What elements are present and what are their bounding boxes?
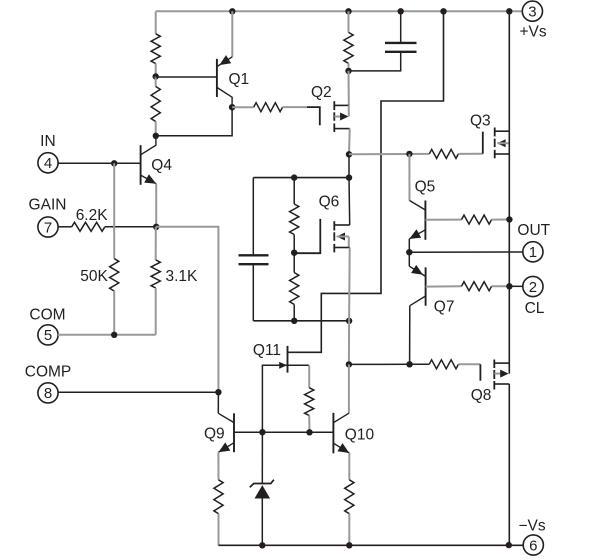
transistor Q6 drain stub bbox=[334, 224, 349, 226]
transistor Q6 body arrow bbox=[337, 233, 345, 241]
svg-text:Q9: Q9 bbox=[204, 426, 225, 443]
resistor 6.2K bbox=[72, 222, 105, 231]
transistor Q4 emitter diagonal bbox=[141, 175, 157, 184]
node COMP junction bbox=[215, 389, 221, 395]
wire Q11 emitter line bbox=[262, 365, 287, 432]
svg-text:5: 5 bbox=[44, 327, 52, 344]
wire bbox=[458, 153, 482, 155]
node zener junction bbox=[259, 429, 265, 435]
transistor Q4 collector bbox=[141, 136, 156, 155]
resistor R-top-left lower bbox=[151, 87, 160, 122]
resistor Q1-Q2 gate bbox=[254, 103, 283, 112]
node compensation block top junction bbox=[346, 174, 352, 180]
transistor Q1 base bar bbox=[216, 59, 218, 97]
wire bbox=[308, 365, 310, 387]
wire bbox=[293, 178, 295, 204]
svg-text:4: 4 bbox=[44, 155, 52, 172]
svg-text:8: 8 bbox=[44, 385, 52, 402]
svg-text:+Vs: +Vs bbox=[520, 24, 547, 41]
transistor Q9 emitter arrow (NPN) bbox=[218, 442, 230, 452]
node bbox=[346, 542, 352, 548]
transistor Q5 emitter arrow (NPN) bbox=[409, 229, 421, 239]
node bbox=[291, 318, 297, 324]
transistor Q10 emitter diagonal bbox=[333, 443, 349, 453]
pin 3 +Vs bbox=[522, 1, 542, 21]
resistor Q3 gate bbox=[429, 149, 458, 158]
node Q4 collector junction bbox=[153, 133, 159, 139]
node OUT resistor junction bbox=[506, 216, 512, 222]
transistor Q2 body line bbox=[334, 116, 341, 118]
wire bbox=[349, 363, 410, 365]
pin 5 COM bbox=[38, 325, 58, 345]
node Q9Q10 base junction bbox=[306, 429, 312, 435]
wire bias run rail to Q11 bbox=[288, 11, 444, 352]
resistor 50K bbox=[110, 259, 119, 291]
svg-text:Q7: Q7 bbox=[434, 299, 455, 316]
resistor Q11 emitter bbox=[305, 388, 314, 416]
svg-text:3: 3 bbox=[528, 4, 536, 21]
wire +Vs top rail bbox=[156, 10, 523, 12]
wire Q4 emitter down bbox=[155, 184, 157, 227]
pin 2 CL bbox=[523, 276, 543, 296]
transistor Q10 emitter arrow (NPN) bbox=[337, 443, 349, 453]
resistor Q10 emitter bbox=[345, 480, 354, 514]
node COM-50K junction bbox=[111, 332, 117, 338]
capacitor C-top bottom lead bbox=[349, 52, 401, 71]
transistor Q10 base bar bbox=[332, 413, 334, 454]
transistor Q7 emitter diagonal bbox=[409, 266, 425, 276]
wire bbox=[410, 363, 430, 365]
svg-text:Q2: Q2 bbox=[311, 84, 332, 101]
wire Q3 gate line bbox=[349, 153, 429, 155]
node rail-bias wire bbox=[440, 8, 446, 14]
transistor Q8 body arrow bbox=[500, 370, 508, 378]
transistor Q9 emitter diagonal bbox=[218, 443, 234, 453]
transistor Q3 source stub bbox=[495, 153, 510, 155]
wire CL to pin bbox=[509, 285, 523, 287]
wire bbox=[218, 514, 220, 546]
node CL junction bbox=[506, 283, 512, 289]
transistor Q2 gate bar bbox=[307, 107, 320, 125]
svg-text:Q6: Q6 bbox=[319, 193, 340, 210]
wire Q7 emitter from OUT node bbox=[408, 252, 410, 266]
wire bbox=[458, 363, 480, 365]
wire output rail upper bbox=[508, 11, 510, 373]
resistor +Vs bias bbox=[344, 32, 353, 63]
wire Q1 collector to Q4 collector bbox=[156, 107, 232, 136]
svg-text:Q11: Q11 bbox=[253, 342, 281, 359]
resistor Q7 base (CL) bbox=[462, 282, 492, 291]
wire Q1 emitter from rail bbox=[231, 11, 233, 57]
transistor Q5 base bar bbox=[424, 201, 426, 240]
svg-text:GAIN: GAIN bbox=[29, 197, 67, 214]
transistor Q8 drain stub bbox=[494, 383, 509, 385]
transistor Q8 body line bbox=[494, 373, 501, 375]
wire bbox=[293, 235, 295, 253]
transistor Q3 gate bar bbox=[482, 132, 484, 154]
transistor Q11 emitter arrow (PNP) bbox=[279, 362, 287, 369]
transistor Q1 emitter arrow (PNP) bbox=[219, 55, 231, 65]
wire Q11 base lead bbox=[288, 364, 310, 366]
pin 4 IN bbox=[38, 153, 58, 173]
transistor Q2 source stub bbox=[334, 104, 349, 106]
transistor Q4 base bar bbox=[140, 145, 142, 185]
wire zener bottom lead bbox=[261, 499, 263, 546]
wire bbox=[232, 106, 254, 108]
node rail-bias resistor bbox=[345, 8, 351, 14]
wire bbox=[293, 253, 295, 273]
transistor Q7 collector diagonal bbox=[410, 296, 426, 306]
transistor Q9 collector diagonal bbox=[218, 413, 234, 422]
svg-text:50K: 50K bbox=[80, 268, 108, 285]
svg-text:Q10: Q10 bbox=[345, 427, 375, 444]
node rail-compensation cap bbox=[398, 8, 404, 14]
svg-text:COMP: COMP bbox=[25, 364, 72, 381]
resistor 3.1K bbox=[151, 260, 160, 288]
resistor comp divider upper bbox=[290, 204, 299, 235]
node Q6 gate junction bbox=[291, 250, 297, 256]
wire Q9-Q10 base line bbox=[234, 431, 333, 433]
transistor Q3 channel dashes bbox=[494, 128, 496, 137]
wire Q5 emitter down bbox=[408, 239, 410, 252]
transistor Q2 drain stub bbox=[334, 128, 349, 130]
transistor Q4 emitter arrow (NPN) bbox=[144, 174, 156, 184]
svg-text:7: 7 bbox=[44, 219, 52, 236]
wire comp block top line bbox=[253, 177, 349, 179]
wire bbox=[348, 63, 350, 71]
wire Q7 base lead bbox=[426, 285, 462, 287]
transistor Q6 gate bar bbox=[294, 219, 320, 253]
wire 50K top lead bbox=[113, 163, 115, 258]
capacitor C-top plates bbox=[385, 42, 417, 44]
pin 7 GAIN bbox=[38, 217, 58, 237]
resistor R-top-left upper bbox=[151, 34, 160, 64]
transistor Q8 gate bar bbox=[479, 364, 481, 380]
svg-text:COM: COM bbox=[29, 307, 65, 324]
wire Q9 collector from COMP bbox=[217, 392, 219, 413]
wire comp block bottom line bbox=[253, 320, 349, 322]
wire Q9 emitter down bbox=[217, 452, 219, 480]
resistor Q9 emitter bbox=[214, 480, 223, 514]
capacitor C-top lead bbox=[400, 11, 402, 42]
node rail-Q1 emitter bbox=[229, 8, 235, 14]
pin 1 OUT bbox=[523, 242, 543, 262]
wire Q6 source down bbox=[348, 248, 351, 321]
wire Q5 base lead bbox=[425, 219, 461, 221]
capacitor C-comp plates bbox=[239, 254, 269, 256]
wire bbox=[155, 64, 157, 77]
wire gain node to comp column bbox=[156, 227, 218, 392]
transistor Q2 channel dashes bbox=[333, 101, 335, 110]
capacitor C-comp top lead bbox=[252, 178, 254, 256]
wire 3.1K top lead bbox=[155, 227, 157, 260]
transistor Q3 body line bbox=[497, 142, 509, 144]
node bbox=[346, 318, 352, 324]
wire IN line bbox=[58, 162, 141, 164]
wire output rail lower bbox=[508, 384, 510, 545]
node GAIN-Q4 emitter junction bbox=[153, 224, 159, 230]
svg-text:6: 6 bbox=[529, 537, 537, 554]
wire bbox=[348, 514, 350, 546]
svg-text:6.2K: 6.2K bbox=[76, 207, 109, 224]
pin 8 COMP bbox=[38, 383, 58, 403]
wire bbox=[155, 77, 157, 87]
zener anode triangle bbox=[255, 485, 271, 498]
node Q1 collector junction bbox=[229, 104, 235, 110]
wire bbox=[492, 219, 510, 221]
node OUT junction bbox=[406, 249, 412, 255]
resistor Q8 gate bbox=[429, 360, 458, 369]
wire left column top bbox=[155, 11, 157, 34]
svg-text:CL: CL bbox=[525, 300, 545, 317]
wire bbox=[348, 154, 350, 177]
node bbox=[506, 542, 512, 548]
transistor Q10 collector diagonal bbox=[333, 413, 349, 423]
wire bbox=[348, 11, 350, 32]
svg-text:IN: IN bbox=[40, 133, 56, 150]
wire bbox=[105, 226, 156, 228]
wire OUT line bbox=[409, 251, 523, 253]
svg-text:−Vs: −Vs bbox=[519, 518, 546, 535]
wire Q2 drain down bbox=[348, 129, 351, 155]
node Q5 collector junction bbox=[406, 151, 412, 157]
transistor Q6 source stub bbox=[334, 247, 349, 249]
node bbox=[291, 174, 297, 180]
wire COM line bbox=[58, 334, 156, 336]
svg-text:1: 1 bbox=[529, 244, 537, 261]
wire bbox=[155, 122, 157, 136]
transistor Q3 drain stub bbox=[495, 130, 510, 132]
wire bbox=[308, 416, 310, 433]
transistor Q11 base bar bbox=[287, 346, 289, 373]
capacitor C-comp bottom lead bbox=[252, 264, 254, 321]
wire Q5 collector bbox=[408, 154, 410, 201]
transistor Q9 base bar bbox=[233, 413, 235, 452]
node Q8 gate line junction bbox=[346, 361, 352, 367]
wire Q10 collector up bbox=[348, 364, 350, 413]
wire Q2 gate lead bbox=[283, 106, 308, 108]
wire Q2 source from node bbox=[348, 71, 350, 106]
wire bbox=[293, 304, 295, 320]
transistor Q6 channel dashes bbox=[333, 221, 335, 230]
node rail-Q3 drain bbox=[506, 8, 512, 14]
transistor Q2 body arrow bbox=[340, 113, 348, 121]
node Q1 base junction bbox=[153, 73, 159, 79]
transistor Q8 channel dashes bbox=[493, 360, 495, 369]
transistor Q8 source stub bbox=[494, 362, 509, 364]
wire COMP line bbox=[58, 391, 219, 393]
wire Q10 emitter down bbox=[348, 453, 350, 480]
node bbox=[259, 542, 265, 548]
zener cathode bar bbox=[250, 480, 274, 488]
transistor Q1 emitter diagonal bbox=[217, 57, 232, 67]
resistor Q5 base bbox=[462, 215, 492, 224]
node bias res/cap junction bbox=[345, 68, 351, 74]
node Q7 collector junction bbox=[406, 361, 412, 367]
svg-text:Q1: Q1 bbox=[229, 71, 250, 88]
svg-text:3.1K: 3.1K bbox=[166, 268, 199, 285]
wire bbox=[58, 226, 72, 228]
wire -Vs bottom rail bbox=[219, 544, 524, 546]
wire bbox=[348, 321, 350, 365]
wire 50K bottom lead bbox=[113, 291, 115, 335]
wire Q1 base lead bbox=[156, 76, 217, 78]
wire Q7 collector down bbox=[409, 306, 411, 365]
wire 3.1K bottom lead bbox=[155, 288, 157, 335]
svg-text:Q5: Q5 bbox=[415, 179, 436, 196]
wire zener top lead bbox=[261, 432, 263, 483]
transistor Q5 emitter diagonal bbox=[409, 230, 425, 239]
wire bbox=[492, 285, 510, 287]
transistor Q5 collector diagonal bbox=[410, 201, 426, 211]
pin 6 -Vs bbox=[523, 535, 543, 555]
svg-text:2: 2 bbox=[529, 279, 537, 296]
transistor Q7 emitter arrow (PNP) bbox=[411, 265, 423, 275]
svg-text:Q8: Q8 bbox=[471, 387, 492, 404]
transistor Q7 base bar bbox=[425, 267, 427, 305]
svg-text:Q4: Q4 bbox=[151, 157, 172, 174]
node Q2 drain junction bbox=[346, 151, 352, 157]
transistor Q6 body line bbox=[337, 236, 349, 238]
node IN-50K junction bbox=[111, 160, 117, 166]
svg-text:Q3: Q3 bbox=[470, 112, 491, 129]
transistor Q1 collector diagonal bbox=[217, 87, 232, 107]
transistor Q11 collector lead bbox=[288, 351, 322, 353]
wire Q6 drain up bbox=[348, 178, 351, 225]
svg-text:OUT: OUT bbox=[517, 222, 550, 239]
transistor Q3 body arrow bbox=[497, 139, 505, 147]
resistor comp divider lower bbox=[290, 273, 299, 305]
